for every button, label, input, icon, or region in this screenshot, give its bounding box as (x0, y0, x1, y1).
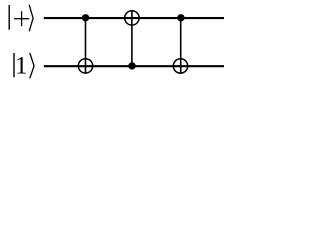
ket label |+> : angle bracket (29, 5, 33, 32)
svg-text:1: 1 (15, 52, 28, 79)
CNOT 1: target oplus (bottom) (78, 59, 92, 73)
ket label |+> : plus sign (14, 11, 29, 26)
ket label |1> : bar (13, 53, 15, 77)
ket label |1> : angle bracket (30, 53, 34, 78)
CNOT 3: vertical wire (180, 18, 182, 74)
ket label |+> : bar (8, 5, 10, 30)
CNOT 2: control dot (bottom) (128, 62, 135, 69)
wire: top qubit line (44, 17, 224, 19)
CNOT 3: control dot (top) (177, 14, 184, 21)
CNOT 1: control dot (top) (82, 14, 89, 21)
CNOT 2: target oplus (top) (125, 11, 139, 25)
CNOT 1: vertical wire (85, 18, 87, 74)
CNOT 2: vertical wire (131, 10, 133, 66)
CNOT 3: target oplus (bottom) (173, 59, 187, 73)
wire: bottom qubit line (44, 65, 224, 67)
